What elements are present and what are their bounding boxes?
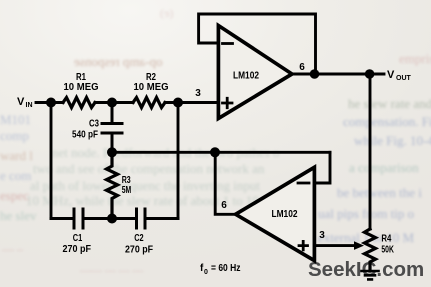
wire VIN stub: [36, 101, 63, 104]
wire R1 to node A: [95, 101, 133, 104]
svg-text:C2: C2: [134, 233, 144, 244]
svg-text:5M: 5M: [122, 185, 132, 196]
wire R2 to op-amp U1 + input: [165, 101, 218, 104]
node VOUT junction: [365, 69, 375, 79]
watermark SeekIC.com: [308, 258, 424, 282]
potentiometer R4: [365, 229, 376, 271]
node bootstrap junction: [210, 147, 220, 157]
wire VOUT vertical: [369, 74, 372, 229]
wire U2 output to bootstrap: [215, 152, 235, 214]
svg-text:R4: R4: [381, 234, 391, 245]
resistor R3: [107, 152, 118, 218]
node B junction: [173, 98, 183, 108]
svg-text:0: 0: [204, 269, 208, 276]
node VIN junction: [46, 98, 56, 108]
node VOUT label: [387, 69, 412, 82]
wire bootstrap horizontal: [112, 151, 330, 154]
resistor R2: [133, 98, 165, 108]
node A junction: [107, 98, 117, 108]
ground: [362, 271, 379, 279]
op-amp U2 LM102: [236, 167, 315, 260]
svg-text:IN: IN: [26, 102, 33, 109]
svg-text:3: 3: [195, 88, 201, 99]
svg-text:V: V: [17, 96, 25, 108]
svg-text:540 pF: 540 pF: [72, 130, 98, 141]
svg-text:OUT: OUT: [396, 75, 412, 82]
wire VIN vertical: [50, 103, 53, 219]
capacitor C1: [74, 209, 137, 228]
svg-text:= 60 Hz: = 60 Hz: [211, 263, 241, 274]
svg-text:3: 3: [319, 230, 325, 241]
bleed-through ghost text fragments: [74, 54, 162, 70]
wire U1 output to VOUT: [290, 73, 384, 76]
node C3/R3 junction: [107, 147, 117, 157]
wire U1 feedback loop: [199, 14, 316, 74]
node C1/C2/R3 junction: [107, 214, 117, 224]
svg-text:LM102: LM102: [272, 208, 298, 220]
capacitor C2: [137, 209, 179, 228]
svg-text:270 pF: 270 pF: [125, 244, 153, 255]
op-amp U1 LM102: [218, 26, 292, 119]
capacitor C3: [102, 103, 122, 153]
svg-text:10 MEG: 10 MEG: [134, 82, 169, 93]
svg-text:LM102: LM102: [233, 70, 259, 82]
svg-text:270 pF: 270 pF: [63, 244, 92, 255]
node VIN label: [17, 96, 33, 109]
resistor R1: [63, 98, 95, 108]
svg-text:V: V: [387, 69, 395, 81]
svg-text:10 MEG: 10 MEG: [64, 82, 99, 93]
wire U2 feedback to inverting input: [315, 152, 330, 183]
svg-text:C3: C3: [89, 119, 99, 130]
svg-text:C1: C1: [73, 233, 83, 244]
node U1 output junction: [310, 69, 320, 79]
wire bottom rail with capacitors: [51, 217, 74, 220]
svg-text:50K: 50K: [381, 245, 394, 256]
f0 value label: [200, 263, 241, 276]
wire node B vertical: [177, 103, 180, 219]
svg-text:6: 6: [299, 62, 305, 73]
svg-text:6: 6: [221, 200, 227, 211]
wire U2 + input to R4 wiper: [315, 244, 355, 247]
